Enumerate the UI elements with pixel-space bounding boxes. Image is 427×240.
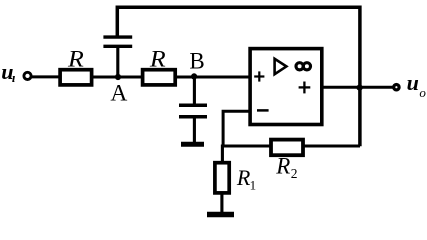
svg-text:A: A	[110, 81, 127, 107]
resistor R (second)	[143, 70, 176, 85]
node output junction	[357, 85, 363, 91]
ground (below capacitor at B)	[181, 142, 204, 147]
wire R1 to ground	[220, 193, 223, 213]
capacitor C (top, between node A and feedback wire)	[103, 37, 132, 77]
wire inverting input (left then down to junction)	[223, 111, 250, 146]
svg-text:1: 1	[250, 177, 257, 192]
wire node B down to capacitor	[193, 76, 196, 105]
svg-text:B: B	[189, 48, 204, 73]
minus label (inverting input)	[257, 109, 269, 112]
op-amp triangle symbol	[275, 59, 287, 74]
capacitor C (at node B)	[179, 105, 207, 142]
wire junction down to R1	[221, 145, 224, 164]
input terminal (open circle)	[24, 72, 31, 79]
op-amp U1 box	[250, 49, 322, 125]
svg-text:o: o	[419, 85, 426, 100]
svg-text:ı: ı	[12, 70, 16, 85]
wire second R to op-amp	[177, 76, 250, 79]
wire first R to second R	[93, 76, 144, 79]
plus label (output polarity)	[299, 82, 311, 94]
svg-text:u: u	[407, 70, 419, 95]
wire top feedback (node A capacitor up, across top, down to output node and R2)	[117, 7, 360, 146]
resistor R2	[271, 140, 303, 156]
wire R2 to feedback vertical	[304, 144, 360, 147]
wire op-amp output	[322, 86, 393, 89]
svg-text:R: R	[67, 47, 84, 72]
ground (below R1)	[207, 212, 234, 217]
wire input to first R	[31, 75, 60, 78]
resistor R (first)	[60, 70, 92, 85]
svg-text:2: 2	[291, 166, 298, 181]
infinity gain symbol	[296, 63, 311, 70]
resistor R1	[215, 163, 229, 193]
svg-text:R: R	[275, 154, 290, 179]
output terminal (open circle)	[394, 85, 399, 90]
wire junction to R2	[222, 144, 272, 147]
node A	[115, 74, 121, 80]
svg-text:R: R	[149, 47, 166, 72]
node B	[191, 73, 197, 79]
plus label (non-inverting input)	[254, 71, 264, 81]
